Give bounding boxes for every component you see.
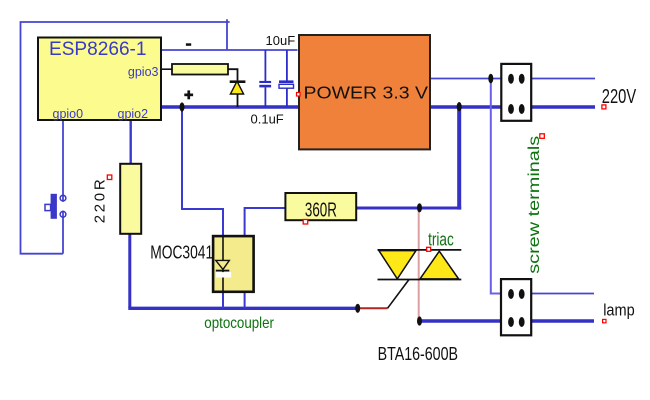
wire cap C1 leads xyxy=(264,50,266,81)
net marker red square power xyxy=(297,93,301,97)
wire thick vertical from 220V bus xyxy=(457,107,461,210)
wire reset loop top-left xyxy=(21,22,228,254)
svg-text:MOC3041: MOC3041 xyxy=(150,242,213,263)
wire cap C2 leads xyxy=(286,50,288,81)
svg-text:360R: 360R xyxy=(305,199,337,221)
svg-text:220V: 220V xyxy=(602,86,637,108)
capacitor C2 10uF xyxy=(279,80,294,88)
wire diode bottom lead xyxy=(237,94,239,107)
svg-text:POWER 3.3 V: POWER 3.3 V xyxy=(304,83,429,103)
svg-text:BTA16-600B: BTA16-600B xyxy=(378,344,458,364)
svg-text:0.1uF: 0.1uF xyxy=(251,112,284,127)
wire button bottom lead xyxy=(62,211,64,254)
power module POWER 3.3 V xyxy=(299,35,430,149)
resistor R 220R xyxy=(120,164,141,234)
wire power right thick 220V xyxy=(430,105,595,108)
wire gpio2 lead xyxy=(129,120,131,164)
junction node triac gate xyxy=(355,304,360,313)
svg-text:gpio3: gpio3 xyxy=(128,65,159,79)
svg-text:10uF: 10uF xyxy=(266,33,296,48)
net marker red square lamp xyxy=(603,319,606,322)
wire black gate diagonal xyxy=(388,280,410,309)
resistor R 360R xyxy=(285,193,356,220)
svg-text:lamp: lamp xyxy=(603,302,635,320)
net marker red square 220V xyxy=(602,105,606,109)
wire plus bus xyxy=(161,105,300,108)
resistor series (gpio3) xyxy=(172,64,228,75)
wire lamp thick xyxy=(420,319,595,322)
capacitor C1 0.1uF xyxy=(259,81,271,88)
wire plus to optocoupler anode xyxy=(182,107,223,237)
svg-text:220R: 220R xyxy=(92,179,109,223)
svg-text:screw terminals: screw terminals xyxy=(526,135,543,273)
triac Q1 xyxy=(378,250,462,280)
svg-text:gpio2: gpio2 xyxy=(118,107,149,121)
wire gpio0 lead xyxy=(62,120,64,202)
wire bottom terminal thin right xyxy=(501,293,594,295)
wire light vertical to lamp terminal xyxy=(491,79,502,294)
wire below 220R xyxy=(128,234,131,309)
svg-text:ESP8266-1: ESP8266-1 xyxy=(49,39,147,60)
wire gpio3 lead xyxy=(161,68,172,70)
net marker red square triac xyxy=(427,247,431,251)
wire optocoupler bottom leads xyxy=(222,292,224,309)
screw terminal J2 bottom xyxy=(501,279,531,335)
junction node gate top xyxy=(417,203,422,212)
svg-text:gpio0: gpio0 xyxy=(53,107,84,121)
net marker red square 360R xyxy=(303,220,308,225)
svg-text:optocoupler: optocoupler xyxy=(204,315,274,332)
net marker red square screw terminals xyxy=(540,134,545,139)
junction node plus xyxy=(180,102,185,111)
net marker red square 220R xyxy=(107,175,112,180)
wire power right thin 3.3 out xyxy=(430,78,595,80)
pushbutton S1 xyxy=(45,194,66,219)
label minus xyxy=(186,43,191,46)
junction node lamp xyxy=(417,316,422,325)
diode D1 xyxy=(230,80,246,94)
wire resistor to diode xyxy=(228,69,238,80)
wire dark red gate segment xyxy=(358,307,388,309)
wire triac gate pink xyxy=(418,208,420,321)
wire minus net xyxy=(161,49,298,51)
wire optocoupler cathode to 360R xyxy=(245,208,286,237)
optocoupler U2 MOC3041 xyxy=(213,236,254,292)
label plus xyxy=(184,90,193,99)
screw terminal J1 top xyxy=(501,64,531,121)
wire 360R to gate node xyxy=(356,207,461,210)
junction node 3.3 branch xyxy=(488,74,493,84)
wire bendpoint tick xyxy=(227,19,230,22)
IC U1 ESP8266-1 xyxy=(38,38,161,121)
junction node 220V branch xyxy=(457,102,462,111)
wire bottom thick bus to triac xyxy=(128,307,357,310)
svg-text:triac: triac xyxy=(428,229,454,249)
